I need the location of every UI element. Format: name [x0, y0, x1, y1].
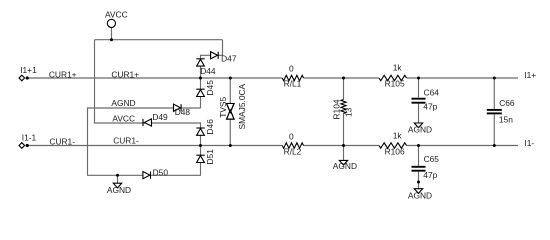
svg-text:47p: 47p	[423, 170, 437, 180]
svg-text:C65: C65	[424, 154, 440, 164]
svg-text:R/L1: R/L1	[284, 78, 302, 88]
svg-text:SMAJ5.0CA: SMAJ5.0CA	[237, 83, 247, 129]
svg-text:I1-1: I1-1	[22, 132, 37, 142]
svg-text:C64: C64	[424, 88, 440, 98]
svg-text:R104: R104	[332, 99, 342, 119]
svg-text:R/L2: R/L2	[284, 147, 302, 157]
svg-text:D50: D50	[153, 167, 169, 177]
svg-text:I1+1: I1+1	[20, 65, 37, 75]
svg-text:15n: 15n	[499, 114, 513, 124]
svg-text:C66: C66	[499, 98, 515, 108]
svg-text:1k: 1k	[393, 130, 403, 140]
svg-text:D47: D47	[221, 53, 237, 63]
svg-text:0: 0	[289, 131, 294, 141]
svg-text:R105: R105	[385, 78, 405, 88]
svg-text:AVCC: AVCC	[105, 9, 128, 19]
svg-text:D46: D46	[205, 119, 215, 135]
svg-text:CUR1+: CUR1+	[49, 70, 77, 80]
svg-text:CUR1-: CUR1-	[49, 136, 75, 146]
svg-text:D51: D51	[205, 149, 215, 165]
svg-text:13: 13	[344, 107, 354, 117]
svg-text:AGND: AGND	[408, 191, 432, 201]
svg-text:D49: D49	[152, 112, 168, 122]
svg-text:I1+: I1+	[524, 70, 536, 80]
svg-text:R106: R106	[385, 147, 405, 157]
svg-text:D45: D45	[205, 80, 215, 96]
svg-text:D44: D44	[200, 66, 216, 76]
svg-text:CUR1-: CUR1-	[113, 136, 139, 146]
svg-text:I1-: I1-	[524, 138, 534, 148]
svg-text:AGND: AGND	[408, 124, 432, 134]
svg-text:AGND: AGND	[107, 185, 131, 195]
svg-text:47p: 47p	[423, 101, 437, 111]
svg-text:TVS5: TVS5	[218, 97, 228, 118]
svg-text:AVCC: AVCC	[112, 113, 135, 123]
svg-text:CUR1+: CUR1+	[111, 69, 139, 79]
svg-text:0: 0	[289, 63, 294, 73]
svg-text:AGND: AGND	[111, 98, 135, 108]
svg-text:AGND: AGND	[333, 161, 357, 171]
svg-text:1k: 1k	[393, 62, 403, 72]
svg-text:D48: D48	[175, 107, 191, 117]
